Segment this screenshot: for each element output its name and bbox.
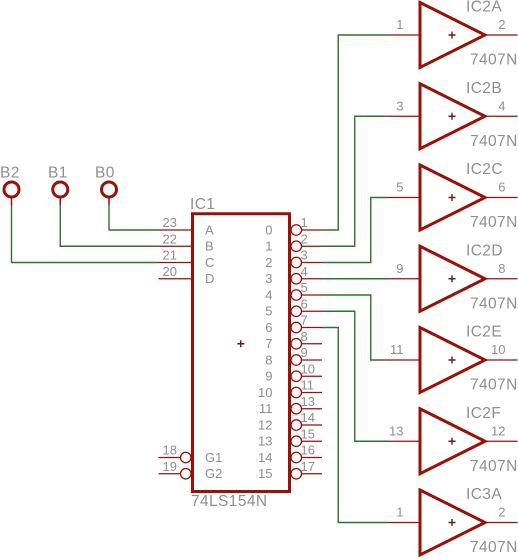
svg-text:7407N: 7407N — [470, 133, 518, 150]
svg-text:IC3A: IC3A — [466, 486, 502, 503]
svg-text:D: D — [205, 271, 214, 286]
svg-text:7407N: 7407N — [470, 377, 518, 394]
svg-text:17: 17 — [301, 459, 315, 474]
svg-text:3: 3 — [301, 248, 308, 263]
svg-text:5: 5 — [265, 304, 272, 319]
svg-text:2: 2 — [498, 505, 505, 520]
svg-text:7407N: 7407N — [470, 214, 518, 231]
svg-text:9: 9 — [265, 369, 272, 384]
svg-text:8: 8 — [498, 261, 505, 276]
svg-text:19: 19 — [163, 459, 177, 474]
svg-text:IC2D: IC2D — [466, 242, 503, 259]
svg-text:7: 7 — [265, 336, 272, 351]
svg-text:21: 21 — [163, 248, 177, 263]
svg-text:7407N: 7407N — [470, 539, 518, 556]
svg-text:3: 3 — [396, 98, 403, 113]
svg-text:IC1: IC1 — [190, 196, 215, 213]
svg-text:13: 13 — [389, 423, 403, 438]
svg-text:7407N: 7407N — [470, 295, 518, 312]
svg-text:11: 11 — [390, 342, 404, 357]
svg-text:B1: B1 — [48, 165, 68, 182]
svg-text:16: 16 — [301, 443, 315, 458]
svg-text:C: C — [205, 255, 214, 270]
svg-text:15: 15 — [258, 466, 272, 481]
svg-text:14: 14 — [258, 450, 272, 465]
svg-text:13: 13 — [258, 434, 272, 449]
svg-text:12: 12 — [491, 423, 505, 438]
svg-text:23: 23 — [163, 215, 177, 230]
svg-text:6: 6 — [265, 320, 272, 335]
svg-text:9: 9 — [301, 345, 308, 360]
svg-text:15: 15 — [301, 426, 315, 441]
svg-text:B2: B2 — [0, 165, 20, 182]
svg-text:7: 7 — [301, 313, 308, 328]
svg-text:4: 4 — [265, 287, 272, 302]
svg-text:IC2E: IC2E — [466, 324, 502, 341]
svg-text:10: 10 — [258, 385, 272, 400]
svg-text:1: 1 — [396, 17, 403, 32]
svg-text:1: 1 — [396, 505, 403, 520]
svg-text:1: 1 — [301, 215, 308, 230]
svg-text:IC2B: IC2B — [466, 80, 502, 97]
svg-text:B: B — [205, 239, 214, 254]
svg-text:14: 14 — [301, 410, 315, 425]
svg-text:4: 4 — [498, 98, 505, 113]
svg-text:3: 3 — [265, 271, 272, 286]
svg-text:5: 5 — [301, 280, 308, 295]
svg-text:12: 12 — [258, 417, 272, 432]
svg-text:7407N: 7407N — [470, 458, 518, 475]
svg-text:4: 4 — [301, 264, 308, 279]
svg-text:8: 8 — [265, 352, 272, 367]
svg-text:74LS154N: 74LS154N — [191, 493, 267, 510]
svg-text:9: 9 — [396, 261, 403, 276]
svg-text:IC2A: IC2A — [466, 0, 502, 16]
svg-text:8: 8 — [301, 329, 308, 344]
svg-text:7407N: 7407N — [470, 52, 518, 69]
svg-text:A: A — [205, 222, 214, 237]
svg-text:10: 10 — [491, 342, 505, 357]
svg-text:G1: G1 — [205, 450, 222, 465]
svg-text:B0: B0 — [95, 165, 115, 182]
svg-text:5: 5 — [396, 180, 403, 195]
svg-text:2: 2 — [265, 255, 272, 270]
svg-text:IC2F: IC2F — [466, 405, 501, 422]
svg-text:2: 2 — [498, 17, 505, 32]
svg-text:10: 10 — [301, 361, 315, 376]
svg-text:1: 1 — [265, 239, 272, 254]
svg-text:6: 6 — [498, 180, 505, 195]
svg-text:13: 13 — [301, 394, 315, 409]
svg-text:G2: G2 — [205, 466, 222, 481]
svg-text:11: 11 — [301, 378, 315, 393]
svg-text:2: 2 — [301, 231, 308, 246]
svg-text:IC2C: IC2C — [466, 161, 503, 178]
svg-text:22: 22 — [163, 231, 177, 246]
svg-text:11: 11 — [259, 401, 273, 416]
svg-text:18: 18 — [163, 443, 177, 458]
svg-text:6: 6 — [301, 296, 308, 311]
svg-text:0: 0 — [265, 222, 272, 237]
svg-text:20: 20 — [163, 264, 177, 279]
